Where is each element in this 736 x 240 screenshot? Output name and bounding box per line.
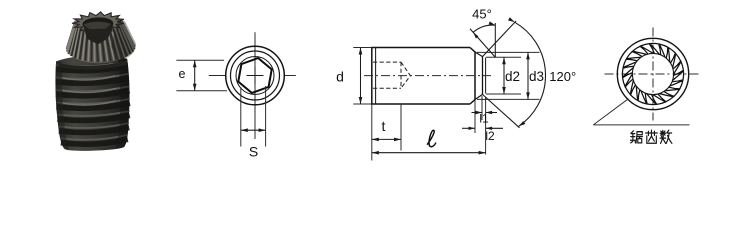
svg-text:t: t [382,118,386,134]
point cone edges [475,52,483,100]
middle circle (serrated rim) [231,51,280,100]
dimension d arrow line [359,48,363,105]
dimension t extension line [400,104,402,151]
outer circle (screw OD) [226,46,285,105]
top view: vertical centerline [254,32,256,139]
svg-text:d: d [336,69,344,85]
svg-text:45°: 45° [472,7,492,22]
cone flank bottom [483,94,520,127]
hidden socket lines [373,62,410,88]
dimension d3 arrow line [526,52,530,99]
dimension t arrow line [372,138,401,142]
socket corner circle [236,57,274,95]
end view vertical centerline [652,28,654,121]
dimension d extension lines [353,48,372,105]
svg-text:d2: d2 [505,69,520,84]
left extension line (l and t) [371,104,373,161]
dimension l1 arrows [472,111,498,114]
svg-text:l1: l1 [479,112,489,126]
top view: horizontal centerline left segment [209,75,227,77]
45 deg reference vertical [494,23,496,57]
dimension e arrow line [193,60,197,90]
label script ell [427,130,435,146]
dimension d2 extension lines [486,57,521,94]
left end chamfer line [375,48,377,105]
svg-text:d3: d3 [529,69,544,84]
top view: horizontal centerline right segment [284,75,296,77]
chamfer circle extension down [474,100,476,134]
end view horizontal centerline [605,73,702,75]
top view: center cross [247,67,264,84]
dimension e extension lines [176,60,227,90]
end view inner circle [632,53,673,94]
svg-text:l2: l2 [485,129,495,143]
leader line to serration [593,99,689,125]
dimension d2 arrow line [502,57,506,94]
dimension l arrow line [372,151,486,155]
dimension d3 extension lines [477,52,540,99]
dimension S arrow line [241,128,266,132]
end face extension down [481,96,483,120]
120 deg arc [508,17,546,126]
side view body outline [372,48,475,105]
cone flank top [483,21,517,57]
svg-text:120°: 120° [549,69,576,84]
end view outer circle [617,38,688,109]
hex socket [238,58,271,93]
cup rim face [482,57,484,95]
photo of knurled cup point set screw [53,11,140,152]
45 deg chamfer line [470,29,495,57]
side view centerline [364,75,491,77]
dimension S extension lines [241,86,266,147]
45 deg angle arc [473,21,495,38]
svg-text:S: S [249,144,258,160]
overall length extension line right [485,97,487,155]
serration teeth ring [622,43,683,104]
dimension l2 arrows [462,127,503,130]
label juchishu (number of teeth) [631,131,643,143]
svg-text:e: e [179,67,186,81]
serration tip line [485,58,487,94]
